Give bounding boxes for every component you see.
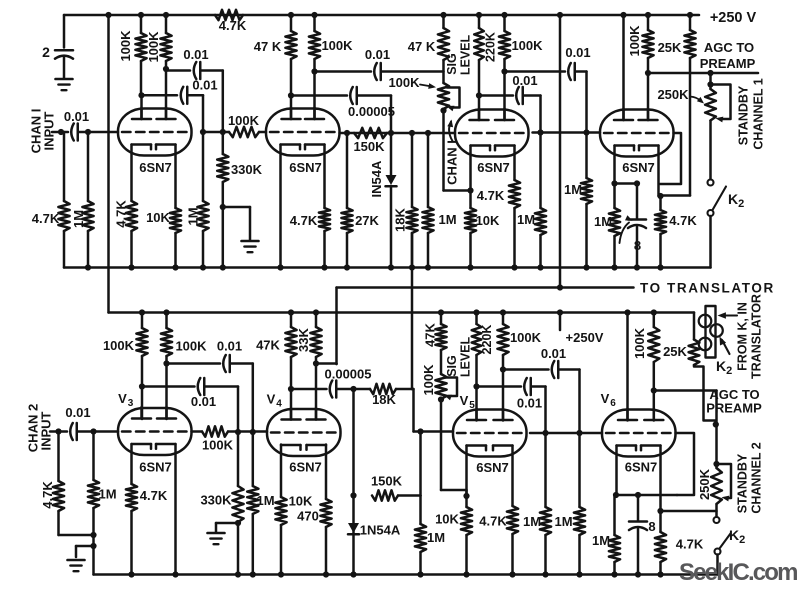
resistor 4.7K cath3	[513, 208, 516, 268]
resistor 100K plate tube2	[311, 12, 317, 18]
capacitor 0.01 coupling a	[166, 69, 190, 72]
svg-text:PREAMP: PREAMP	[700, 56, 756, 71]
tube V6 6SN7	[602, 410, 676, 457]
wire 25K to cathode	[661, 194, 691, 197]
svg-text:0.01: 0.01	[192, 78, 217, 93]
svg-text:1M: 1M	[523, 514, 541, 529]
wire TO TRANSLATOR line	[337, 286, 634, 289]
resistor 1M grid V4	[250, 429, 256, 435]
svg-text:1M: 1M	[594, 214, 612, 229]
resistor 18K ch1	[409, 130, 415, 136]
svg-text:0.01: 0.01	[65, 405, 90, 420]
svg-text:AGC TO: AGC TO	[704, 40, 754, 55]
resistor 47K sig	[442, 15, 445, 28]
svg-text:1M: 1M	[438, 212, 456, 227]
svg-text:100K: 100K	[627, 25, 642, 57]
diode 1N54A ch1	[388, 130, 394, 136]
svg-text:LEVEL: LEVEL	[459, 35, 473, 76]
svg-text:100K: 100K	[228, 113, 260, 128]
svg-text:6SN7: 6SN7	[625, 460, 658, 475]
svg-text:CHAN I: CHAN I	[445, 140, 460, 185]
wire V5 cathode leads	[465, 446, 468, 508]
svg-text:V: V	[460, 393, 469, 408]
svg-text:V: V	[601, 391, 610, 406]
resistor 1M	[87, 132, 90, 201]
svg-text:FROM K, IN: FROM K, IN	[736, 302, 750, 371]
resistor 100K v3b	[165, 313, 168, 329]
svg-text:6SN7: 6SN7	[289, 460, 322, 475]
svg-text:4.7K: 4.7K	[676, 537, 704, 552]
svg-text:220K: 220K	[484, 32, 498, 62]
resistor 1M cv6	[613, 495, 616, 535]
svg-text:150K: 150K	[371, 474, 403, 489]
cap 0.01 v3a	[223, 355, 226, 372]
resistor 18K	[411, 133, 414, 207]
svg-text:100K: 100K	[388, 75, 420, 90]
svg-text:2: 2	[42, 44, 50, 60]
ground input ch2	[76, 545, 94, 548]
resistor 25K ch2	[693, 313, 696, 340]
svg-text:1M: 1M	[564, 182, 582, 197]
ground mid ch2	[208, 532, 225, 535]
resistor 100K c	[313, 15, 316, 31]
svg-text:CHANNEL 2: CHANNEL 2	[750, 442, 764, 513]
svg-text:6SN7: 6SN7	[622, 160, 655, 175]
resistor 470	[325, 527, 328, 575]
svg-text:100K: 100K	[321, 38, 353, 53]
resistor 100K plate V3 left	[139, 309, 145, 315]
cap 0.01 b	[181, 87, 184, 104]
svg-text:1M: 1M	[186, 207, 201, 225]
resistor 100K plate V3 right	[163, 309, 169, 315]
resistor R 100K first (left)	[138, 12, 144, 18]
svg-text:100K: 100K	[510, 330, 542, 345]
potentiometer SIG LEVEL ch1 100K	[440, 12, 446, 18]
svg-text:4.7K: 4.7K	[479, 514, 507, 529]
node tube1 right plate	[163, 66, 169, 72]
wire rail to tube4 left plate	[620, 12, 626, 18]
diode 1N54A ch2	[348, 523, 359, 533]
svg-text:SIG: SIG	[445, 53, 459, 75]
resistor 18K ch2 horizontal	[350, 386, 356, 392]
switch K2 ch1	[708, 180, 714, 186]
svg-text:100K: 100K	[118, 30, 133, 62]
resistor 47K v4	[290, 313, 293, 328]
wire 100K bottom row to AGC node	[654, 389, 717, 392]
svg-text:0.01: 0.01	[512, 73, 537, 88]
resistor 330K ch2	[235, 429, 241, 435]
wire 18K to ch2	[411, 233, 414, 389]
cap 0.00005	[350, 87, 353, 104]
svg-text:6: 6	[610, 398, 616, 409]
tube U4 6SN7 fourth	[600, 110, 674, 157]
cap 0.01 v3b	[198, 378, 201, 395]
resistor 4.7K	[63, 132, 66, 201]
svg-text:470: 470	[297, 509, 319, 524]
capacitor 0.01 V5 right plate coupling	[503, 368, 549, 371]
resistor 4.7K cv3	[130, 511, 133, 575]
svg-text:10K: 10K	[435, 512, 459, 527]
resistor 220K V5	[473, 309, 479, 315]
svg-text:SIG: SIG	[445, 355, 459, 377]
resistor 150K ch1	[354, 128, 387, 138]
svg-text:330K: 330K	[200, 493, 232, 508]
resistor 1M g4	[585, 133, 588, 179]
resistor 1M c4	[613, 236, 616, 268]
arrow on 8uF cap	[620, 223, 630, 244]
svg-text:6SN7: 6SN7	[477, 160, 510, 175]
wire +250V rail ch2	[109, 311, 695, 314]
svg-text:3: 3	[128, 398, 134, 409]
wire rail to translator feed	[557, 12, 563, 18]
wire +250V stub ch2	[557, 309, 563, 315]
node V5 right plate	[500, 366, 506, 372]
potentiometer 250K standby ch2	[715, 423, 718, 426]
tube V4 6SN7	[267, 409, 341, 456]
capacitor 8uF ch1	[636, 184, 639, 220]
resistor 1M grid coupling	[537, 129, 543, 135]
svg-text:SeekIC.com: SeekIC.com	[679, 559, 797, 586]
node V4 right plate to translator	[313, 360, 319, 366]
svg-text:STANDBY: STANDBY	[736, 453, 750, 513]
svg-text:TO TRANSLATOR: TO TRANSLATOR	[640, 281, 775, 296]
svg-text:100K: 100K	[202, 438, 234, 453]
svg-text:100K: 100K	[632, 327, 647, 359]
resistor 10K cath	[174, 233, 177, 268]
capacitor 0.01 coupling b	[142, 94, 178, 97]
node tube3 right plate	[501, 68, 507, 74]
wire 250K to switch	[709, 121, 712, 180]
resistor 10K cv4	[280, 525, 283, 575]
resistor 1M grid tube4	[583, 129, 589, 135]
svg-text:+250 V: +250 V	[710, 10, 757, 26]
cap 8uF 2	[629, 520, 647, 523]
svg-text:1M: 1M	[592, 533, 610, 548]
switch K2 ch2	[714, 517, 720, 523]
svg-text:150K: 150K	[353, 139, 385, 154]
svg-text:0.01: 0.01	[217, 339, 242, 354]
capacitor 0.01 tube3 right plate coupling	[505, 70, 566, 73]
wire V6 cathode leads	[615, 446, 618, 496]
wire tube3 cathodes	[469, 146, 472, 209]
svg-text:0.00005: 0.00005	[325, 367, 372, 382]
svg-text:4.7K: 4.7K	[140, 488, 168, 503]
svg-text:4.7K: 4.7K	[669, 213, 697, 228]
tube U1 6SN7 first	[118, 109, 192, 156]
node tube2 right plate	[311, 68, 317, 74]
capacitor 0.00005 ch2	[291, 388, 327, 391]
resistor 10K cv5	[465, 535, 468, 573]
capacitor 0.01 coupling V3-V4 b	[142, 385, 195, 388]
svg-text:100K: 100K	[146, 31, 161, 63]
wire V4 cathode leads	[280, 445, 283, 498]
resistor 1M in2	[92, 432, 95, 481]
svg-text:0.01: 0.01	[64, 109, 89, 124]
wire +250V top rail	[64, 14, 699, 17]
relay jack FROM K1 IN TRANSLATOR	[706, 306, 716, 358]
arrow chan1 up annotation	[449, 122, 452, 142]
wire bottom rail to switch ch2	[716, 555, 719, 575]
ground below 2uF cap	[56, 78, 73, 81]
svg-text:25K: 25K	[658, 40, 682, 55]
cap 0.01 e	[516, 87, 519, 104]
svg-text:0.01: 0.01	[541, 346, 566, 361]
wire 18K node down to diode	[352, 389, 355, 575]
wire B+ feed to channel 2	[107, 15, 110, 313]
node V4 left plate	[288, 386, 294, 392]
resistor 25K ch1	[687, 12, 693, 18]
arrow into jack top	[722, 314, 737, 316]
svg-text:4.7K: 4.7K	[32, 211, 60, 226]
node V3 right plate	[163, 360, 169, 366]
resistor 4.7K in2	[57, 432, 60, 482]
svg-text:0.01: 0.01	[191, 394, 216, 409]
wire rail to V6 left plate	[624, 309, 630, 315]
pot wiper loop ch2	[445, 378, 458, 397]
resistor 10K cath3	[469, 233, 472, 268]
svg-text:18K: 18K	[393, 207, 408, 231]
svg-text:47K: 47K	[423, 322, 438, 346]
capacitor 0.01 input ch1	[71, 124, 74, 141]
wire grid row V5-V6	[530, 432, 602, 435]
resistor 47K plate tube2	[288, 12, 294, 18]
svg-text:1M: 1M	[256, 493, 274, 508]
resistor 220K	[476, 12, 482, 18]
wire translator down to ch2	[335, 288, 338, 365]
node top rail junction	[105, 12, 111, 18]
resistor 100K d	[503, 15, 506, 31]
resistor 330K 2	[237, 432, 240, 486]
wire chan2 input	[50, 430, 67, 433]
svg-text:0.01: 0.01	[365, 47, 390, 62]
resistor 1M gc	[539, 133, 542, 209]
svg-text:10K: 10K	[476, 213, 500, 228]
wire ground rail to switch	[709, 216, 712, 268]
node V6 right plate	[651, 387, 657, 393]
pot 250K wiper loop ch2	[717, 464, 732, 498]
node pot bottom ch2	[438, 396, 444, 402]
svg-text:0.01: 0.01	[183, 47, 208, 62]
svg-text:V: V	[118, 391, 127, 406]
resistor 100K e	[647, 15, 650, 30]
node 330K ground tap	[220, 204, 226, 210]
svg-text:1N54A: 1N54A	[360, 523, 401, 538]
svg-text:220K: 220K	[480, 325, 494, 355]
resistor 47K sig2	[440, 313, 443, 325]
svg-text:4.7K: 4.7K	[40, 481, 55, 509]
svg-text:IN54A: IN54A	[369, 160, 384, 197]
resistor 1M grid2 tube1	[200, 129, 206, 135]
svg-text:6SN7: 6SN7	[139, 160, 172, 175]
resistor 330K	[222, 132, 225, 154]
resistor 1M g2	[202, 132, 205, 201]
resistor 100K v6	[653, 313, 656, 328]
node pot bottom	[440, 107, 446, 113]
capacitor 2uF top-left	[63, 15, 66, 48]
resistor 47K plate V4	[288, 309, 294, 315]
resistor 47K	[290, 15, 293, 31]
resistor 100K grid horizontal ch2	[202, 426, 228, 436]
resistor 4.7K cath2	[323, 231, 326, 268]
pot wiper loop ch1	[447, 88, 460, 108]
resistor 27K	[346, 133, 349, 208]
wire ground rail ch1	[64, 266, 711, 269]
capacitor 2 plates	[55, 49, 73, 52]
cap 0.01 a	[194, 62, 197, 79]
ground mid ch1	[242, 240, 259, 243]
svg-text:LEVEL: LEVEL	[459, 337, 473, 378]
node 330K ground tap ch2	[235, 520, 241, 526]
resistor 1M gv6	[578, 433, 581, 507]
resistor 25K	[689, 15, 692, 30]
wire V6 grid bend	[676, 433, 695, 495]
cap 0.01 v5a	[524, 378, 527, 395]
wire cathode row V6	[616, 494, 677, 497]
resistor 100K plate tube4	[645, 12, 651, 18]
tube U2 6SN7 second	[266, 109, 340, 156]
node AGC ch2	[713, 421, 719, 427]
potentiometer 250K standby ch1	[707, 70, 713, 76]
tube V3 6SN7	[118, 408, 192, 455]
svg-text:8: 8	[648, 519, 655, 534]
wire tube4 grid bend	[660, 133, 681, 184]
capacitor 0.01 V5 left plate coupling	[477, 385, 522, 388]
resistor 100K second	[163, 12, 169, 18]
svg-text:+250V: +250V	[566, 330, 604, 345]
tube U3 6SN7 third	[455, 110, 529, 157]
resistor 1M g3	[427, 133, 430, 207]
svg-text:CHANNEL 1: CHANNEL 1	[752, 78, 766, 149]
wire 250K to switch ch2	[715, 504, 718, 517]
svg-text:1M: 1M	[98, 487, 116, 502]
capacitor 0.01 coupling V3-V4 a	[167, 362, 221, 365]
svg-text:10K: 10K	[146, 210, 170, 225]
svg-text:47 K: 47 K	[254, 39, 282, 54]
svg-text:100K: 100K	[511, 38, 543, 53]
cap 0.01 v5b	[552, 361, 555, 378]
svg-text:4.7K: 4.7K	[114, 200, 129, 228]
node V3 left plate	[139, 383, 145, 389]
svg-text:6SN7: 6SN7	[139, 460, 172, 475]
resistor 100K plate V6	[651, 309, 657, 315]
svg-text:1M: 1M	[71, 210, 86, 228]
svg-text:4: 4	[276, 399, 282, 410]
wire V3 cathode leads	[130, 444, 133, 484]
svg-text:1M: 1M	[517, 212, 535, 227]
svg-text:1M: 1M	[554, 514, 572, 529]
resistor 1M cc2	[544, 433, 547, 507]
resistor 100K v3a	[141, 313, 144, 329]
svg-text:100K: 100K	[103, 338, 135, 353]
node AGC junction	[645, 70, 651, 76]
resistor 4.7K top rail horizontal	[215, 10, 243, 20]
svg-text:250K: 250K	[657, 87, 689, 102]
ground ch2 input	[68, 559, 85, 562]
wire tube2 cathodes	[279, 145, 282, 268]
capacitor 0.01 input ch2	[70, 423, 73, 440]
pot 250K wiper loop	[711, 85, 731, 120]
svg-text:STANDBY: STANDBY	[737, 85, 751, 145]
wire grid row tube3-tube4	[533, 131, 601, 134]
svg-text:10K: 10K	[289, 494, 313, 509]
resistor 150K ch2	[372, 490, 398, 500]
svg-text:330K: 330K	[231, 162, 263, 177]
svg-text:47 K: 47 K	[408, 39, 436, 54]
resistor 1M gv4	[252, 432, 255, 486]
resistor 33K	[315, 313, 318, 328]
wire grid row tube2-tube3	[340, 132, 456, 135]
node tube2 left plate	[288, 92, 294, 98]
svg-text:PREAMP: PREAMP	[706, 401, 762, 416]
arrow to pot	[420, 85, 432, 87]
arrow to 250K	[690, 97, 702, 102]
resistor 100K grid horizontal ch1	[229, 127, 259, 137]
capacitor 0.00005 ch1	[291, 94, 347, 97]
diode IN54A	[386, 175, 397, 185]
wire 25K jog to AGC node	[694, 365, 716, 425]
resistor 1M grid V6	[576, 430, 582, 436]
svg-text:33K: 33K	[296, 327, 311, 351]
svg-text:100K: 100K	[421, 364, 436, 396]
cap 0.01 c	[374, 63, 377, 80]
svg-text:V: V	[267, 392, 276, 407]
resistor 100K plate V5	[500, 309, 506, 315]
svg-text:100K: 100K	[175, 339, 207, 354]
resistor 100K a	[140, 15, 143, 33]
svg-text:0.00005: 0.00005	[348, 104, 395, 119]
svg-text:1M: 1M	[427, 530, 445, 545]
resistor 1M gv5	[419, 496, 422, 525]
svg-text:27K: 27K	[355, 213, 379, 228]
switch K2 blade at jack	[722, 340, 730, 354]
resistor 100K b	[165, 15, 168, 33]
svg-text:8: 8	[634, 238, 641, 253]
tube V5 6SN7	[453, 410, 527, 457]
resistor 4.7K cath	[130, 231, 133, 268]
svg-text:0.01: 0.01	[565, 45, 590, 60]
capacitor 8uF ch2	[637, 495, 640, 520]
cap 0.00005 2	[330, 381, 333, 398]
resistor 4.7K cv5	[511, 534, 514, 573]
resistor 33K plate V4	[313, 309, 319, 315]
wire bottom ground rail ch2	[94, 573, 718, 576]
resistor 4.7K c4	[659, 196, 662, 210]
resistor 100K plate tube3	[501, 12, 507, 18]
cap 0.01 f	[568, 63, 571, 80]
cap 8uF	[628, 218, 646, 221]
svg-text:0.01: 0.01	[517, 396, 542, 411]
wire grid feed row V5	[412, 388, 414, 391]
svg-text:4.7K: 4.7K	[219, 18, 247, 33]
svg-text:250K: 250K	[697, 468, 712, 500]
svg-text:TRANSLATOR: TRANSLATOR	[750, 294, 764, 379]
svg-text:4.7K: 4.7K	[290, 213, 318, 228]
svg-text:25K: 25K	[663, 344, 687, 359]
svg-text:6SN7: 6SN7	[289, 160, 322, 175]
wire cathode row tube4	[615, 182, 638, 185]
resistor 4.7K cv6	[659, 511, 662, 532]
capacitor 0.01 to sig level	[315, 70, 372, 73]
svg-text:4.7K: 4.7K	[477, 188, 505, 203]
capacitor 0.01 tube3 left plate to grid row	[476, 92, 482, 98]
resistor 1M coupling ch2	[542, 430, 548, 436]
svg-text:18K: 18K	[372, 392, 396, 407]
wire tube1 cathode leads	[130, 145, 133, 202]
node V5 left plate	[473, 383, 479, 389]
svg-text:6SN7: 6SN7	[476, 460, 509, 475]
resistor 1M cathode V6	[615, 494, 617, 497]
svg-text:47K: 47K	[256, 338, 280, 353]
